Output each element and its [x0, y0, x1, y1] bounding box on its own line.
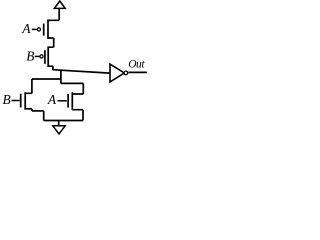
- svg-text:A: A: [21, 21, 31, 36]
- VDD supply arrow: [54, 1, 65, 8]
- transistor Q2 PMOS B channel bracket: [48, 47, 54, 66]
- ground symbol: [53, 126, 65, 134]
- op-amp U1 inverter triangle: [110, 64, 124, 82]
- wire junction Q1-Q2: [53, 38, 55, 47]
- wire ground rail: [44, 120, 83, 122]
- wire output lead: [129, 71, 147, 73]
- wire rail to NMOS B drain: [32, 78, 61, 80]
- wire PMOS drain to output node: [52, 66, 54, 70]
- wire step down to pull-down network: [60, 70, 62, 83]
- wire rail to NMOS A drain: [61, 82, 83, 84]
- wire VDD stem: [58, 8, 60, 20]
- transistor Q4 NMOS A channel bracket: [72, 92, 83, 110]
- wire NMOS A drain vertical: [82, 83, 84, 94]
- wire source rail left: [32, 110, 44, 112]
- wire gate lead B (NMOS): [12, 100, 20, 102]
- transistor Q1 PMOS A gate bubble: [37, 28, 40, 31]
- transistor Q3 NMOS B gate bar: [20, 94, 22, 108]
- wire NMOS B source vertical: [31, 109, 33, 111]
- svg-text:B: B: [26, 49, 34, 64]
- transistor Q3 NMOS B channel bracket: [25, 92, 32, 110]
- svg-text:Out: Out: [128, 58, 145, 70]
- wire output node line: [53, 70, 110, 73]
- wire gate lead A: [32, 28, 37, 30]
- wire gate lead A (NMOS): [58, 100, 67, 102]
- inverter output bubble: [124, 71, 128, 75]
- transistor Q1 PMOS A gate bar: [43, 24, 45, 36]
- transistor Q2 PMOS B gate bar: [44, 50, 46, 64]
- wire source rail step: [43, 111, 45, 121]
- svg-text:A: A: [47, 92, 57, 107]
- wire ground stem: [58, 121, 60, 126]
- transistor Q2 PMOS B gate bubble: [40, 55, 43, 58]
- wire gate lead B: [35, 55, 40, 57]
- svg-text:B: B: [3, 92, 11, 107]
- wire NMOS B drain vertical: [31, 79, 33, 93]
- wire NMOS A source vertical: [82, 110, 84, 121]
- transistor Q1 PMOS A channel bracket: [48, 20, 59, 38]
- transistor Q4 NMOS A gate bar: [67, 94, 69, 108]
